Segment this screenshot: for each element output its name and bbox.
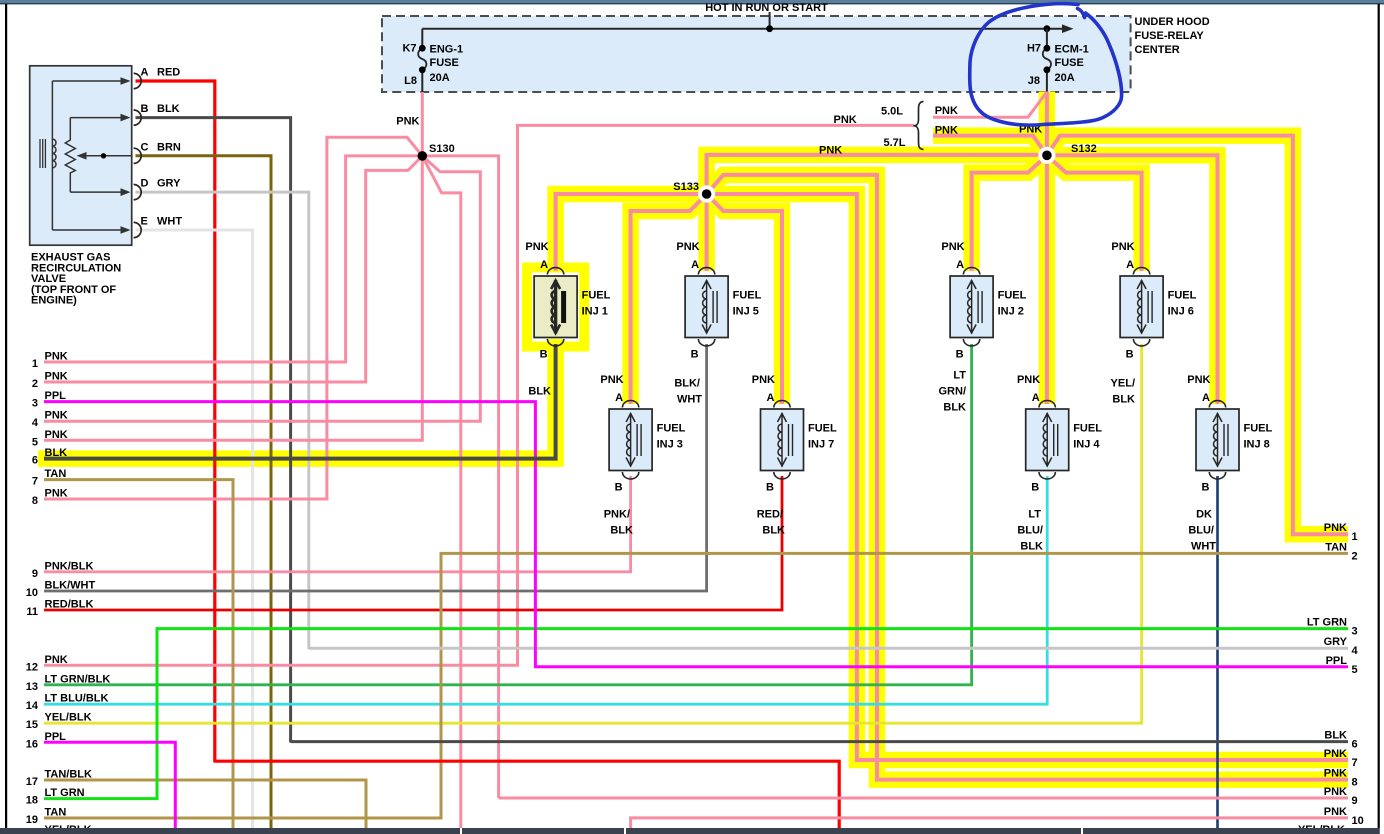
svg-text:INJ 8: INJ 8 [1244, 438, 1270, 450]
svg-text:INJ 3: INJ 3 [657, 438, 683, 450]
svg-text:LT GRN/BLK: LT GRN/BLK [45, 673, 111, 685]
splice S130 [418, 151, 428, 161]
svg-text:BLK: BLK [943, 402, 966, 414]
svg-text:ENG-1: ENG-1 [430, 44, 464, 56]
highlight band S133 to injector 5 pin A [698, 194, 715, 271]
highlight band S132 to injector 2 pin A [972, 155, 1047, 271]
svg-text:A: A [1202, 392, 1210, 404]
svg-text:B: B [956, 349, 964, 361]
svg-text:5.7L: 5.7L [884, 137, 906, 149]
annotation circle around ECM-1 fuse [970, 4, 1122, 125]
terminal J8 [1044, 66, 1051, 73]
EGR internal wire to pin E [52, 229, 121, 231]
svg-text:INJ 4: INJ 4 [1073, 438, 1100, 450]
svg-text:B: B [615, 482, 623, 494]
svg-text:7: 7 [1352, 757, 1358, 769]
svg-text:PNK: PNK [1324, 806, 1347, 818]
svg-text:8: 8 [32, 495, 38, 507]
wire PNK S133 to injector 5 pin A [705, 194, 709, 271]
svg-text:B: B [691, 349, 699, 361]
wire PNK S133 to injector 3 pin A [631, 194, 707, 404]
EGR wiper arrow to pin C [85, 155, 131, 157]
svg-text:A: A [540, 259, 548, 271]
highlight band S133 to injector 1 pin A [556, 194, 707, 271]
svg-text:5.0L: 5.0L [881, 106, 903, 118]
fuse ECM-1 20A [1046, 29, 1048, 49]
svg-text:GRY: GRY [157, 178, 181, 190]
wire WHT EGR pin E drop [136, 230, 253, 829]
wire PNK S132 to injector 6 pin A [1047, 155, 1142, 271]
svg-text:RED: RED [157, 67, 180, 79]
svg-text:E: E [141, 216, 148, 228]
wire PNK S130 to left pin 8 [44, 137, 422, 499]
svg-text:PNK: PNK [1324, 786, 1347, 798]
fuel injector FUEL INJ 7 [761, 409, 804, 471]
svg-text:FUEL: FUEL [1168, 290, 1197, 302]
wire GRY to right pin 4 [309, 647, 1348, 650]
svg-text:ECM-1: ECM-1 [1055, 44, 1089, 56]
highlight band ECM riser to S132 [1039, 92, 1056, 156]
svg-text:PNK: PNK [45, 488, 68, 500]
svg-text:BLK: BLK [45, 447, 68, 459]
svg-text:4: 4 [32, 417, 39, 429]
wire hot bus [422, 28, 1066, 30]
svg-text:INJ 5: INJ 5 [733, 305, 759, 317]
svg-text:TAN/BLK: TAN/BLK [45, 769, 93, 781]
svg-text:LT GRN: LT GRN [45, 787, 85, 799]
highlight band S133 riser / connector to S132 [707, 155, 1047, 194]
svg-text:9: 9 [32, 568, 38, 580]
EGR pin E (WHT) [134, 222, 142, 237]
svg-text:FUEL: FUEL [808, 423, 837, 435]
wire TAN left pin 19 to right pin 2 [44, 553, 1348, 818]
svg-text:BLU/: BLU/ [1188, 525, 1214, 537]
svg-text:PNK: PNK [935, 125, 958, 137]
svg-text:PPL: PPL [45, 390, 67, 402]
svg-text:BLU/: BLU/ [1017, 525, 1043, 537]
brace 5.0L/5.7L [914, 102, 924, 150]
wire LT GRN/BLK injector 2 pin B to left pin 13 [44, 344, 972, 685]
wire PNK S133 to right pin 7 [707, 194, 1348, 760]
svg-text:B: B [766, 482, 774, 494]
svg-text:S132: S132 [1071, 143, 1097, 155]
wire PNK S130 to left pin 4 [44, 156, 480, 421]
EGR internal wire to pin D [70, 191, 121, 193]
wire BLK/WHT injector 5 pin B to left pin 10 [44, 344, 707, 591]
svg-text:FUEL: FUEL [657, 423, 686, 435]
wire LT BLU/BLK injector 4 pin B to left pin 14 [44, 476, 1047, 704]
wire BLK to right pin 6 [291, 740, 1348, 743]
wire PNK to right pin 9 [499, 797, 1348, 800]
svg-text:PNK/: PNK/ [604, 509, 630, 521]
wire LT GRN left pin 18 to right pin 3 [44, 629, 1348, 799]
fuse ENG-1 20A [421, 29, 423, 49]
fuel injector FUEL INJ 1 [534, 276, 577, 338]
svg-text:YEL/BLK: YEL/BLK [45, 712, 92, 724]
wire BLK injector 1 pin B to left pin 6 [44, 344, 556, 459]
splice S132 [1038, 147, 1055, 164]
EGR internal wire to pin B [70, 117, 121, 119]
svg-text:A: A [141, 67, 149, 79]
EGR internal left rail [51, 81, 53, 230]
svg-text:BLK: BLK [528, 386, 551, 398]
fuel injector FUEL INJ 4 [1026, 409, 1069, 471]
svg-text:12: 12 [26, 661, 38, 673]
svg-text:5: 5 [1352, 664, 1358, 676]
svg-text:1: 1 [1352, 531, 1358, 543]
wire BRN EGR pin C drop [136, 156, 272, 829]
svg-text:8: 8 [1352, 777, 1358, 789]
wire PNK ECM riser to S132 [1045, 92, 1049, 156]
svg-text:2: 2 [1352, 550, 1358, 562]
terminal L8 [419, 66, 426, 73]
highlight band injector 1 BLK to left pin 6 [38, 339, 556, 459]
EGR pin C (BRN) [134, 148, 142, 163]
svg-text:WHT: WHT [1191, 541, 1216, 553]
svg-text:CENTER: CENTER [1135, 44, 1180, 56]
svg-text:6: 6 [1352, 739, 1358, 751]
svg-text:BLK: BLK [1112, 394, 1135, 406]
svg-text:PNK: PNK [45, 371, 68, 383]
wire PNK S130 to left pin 5 [44, 156, 422, 440]
svg-text:ENGINE): ENGINE) [31, 295, 77, 307]
svg-text:PNK: PNK [752, 374, 775, 386]
svg-text:BLK: BLK [762, 525, 785, 537]
svg-text:RED/BLK: RED/BLK [45, 599, 94, 611]
EGR pin D (GRY) [134, 185, 142, 200]
svg-text:6: 6 [32, 455, 38, 467]
svg-text:FUEL: FUEL [998, 290, 1027, 302]
svg-text:L8: L8 [404, 75, 417, 87]
fuse-relay center box (UNDER HOOD FUSE-RELAY CENTER) [382, 16, 1131, 92]
wire PNK 5.7L variant [933, 136, 1047, 156]
fuel injector FUEL INJ 3 [609, 409, 652, 471]
svg-text:PNK: PNK [396, 116, 419, 128]
EGR internal wire to pin A [52, 80, 121, 82]
svg-text:FUEL: FUEL [1244, 423, 1273, 435]
svg-text:GRN/: GRN/ [939, 386, 967, 398]
EGR internal middle rail [65, 118, 75, 193]
svg-text:D: D [141, 178, 149, 190]
highlight band S133 to right pin 7 [707, 194, 1348, 760]
svg-text:PNK: PNK [45, 654, 68, 666]
svg-text:FUEL: FUEL [582, 290, 611, 302]
highlight band S133 to injector 3 pin A [631, 194, 707, 404]
wire BLK EGR pin B drop [136, 118, 291, 743]
wire DK BLU/WHT injector 8 pin B [1216, 476, 1219, 829]
wire PNK S133 to injector 1 pin A [556, 194, 707, 271]
svg-text:BRN: BRN [157, 141, 181, 153]
wire PNK S130 to left pin 1 [44, 156, 422, 362]
wire TAN/BLK left pin 17 drop [44, 780, 366, 829]
svg-text:PPL: PPL [1326, 655, 1348, 667]
junction hot tick [766, 25, 773, 32]
svg-text:11: 11 [26, 606, 38, 618]
wire PNK from bottom to right pin 10 [631, 818, 1348, 829]
wire RED bottom run [215, 761, 839, 829]
svg-text:15: 15 [26, 719, 38, 731]
svg-text:7: 7 [32, 476, 38, 488]
svg-text:DK: DK [1196, 509, 1212, 521]
svg-text:A: A [1032, 392, 1040, 404]
terminal H7 [1044, 45, 1051, 52]
wire PNK S133 to right pin 8 [707, 175, 1348, 780]
terminal K7 [419, 45, 426, 52]
svg-text:1: 1 [32, 358, 38, 370]
svg-text:J8: J8 [1028, 75, 1040, 87]
svg-text:B: B [141, 103, 149, 115]
wire PNK S132 to injector 8 pin A [1047, 155, 1218, 404]
svg-text:16: 16 [26, 738, 38, 750]
svg-text:3: 3 [1352, 626, 1358, 638]
svg-text:FUEL: FUEL [733, 290, 762, 302]
svg-text:FUSE-RELAY: FUSE-RELAY [1135, 30, 1205, 42]
EGR solenoid coil [52, 139, 56, 168]
svg-text:B: B [540, 349, 548, 361]
svg-text:LT: LT [1028, 509, 1041, 521]
svg-text:H7: H7 [1027, 43, 1041, 55]
svg-text:INJ 7: INJ 7 [808, 438, 834, 450]
svg-text:TAN: TAN [1325, 541, 1347, 553]
svg-text:S133: S133 [673, 181, 699, 193]
wire PNK/BLK injector 3 pin B to left pin 9 [44, 476, 631, 572]
svg-text:PNK: PNK [1324, 748, 1347, 760]
svg-text:10: 10 [26, 587, 38, 599]
fuel injector FUEL INJ 8 [1196, 409, 1239, 471]
svg-text:B: B [1126, 349, 1134, 361]
svg-text:9: 9 [1352, 795, 1358, 807]
svg-text:TAN: TAN [45, 807, 67, 819]
svg-text:BLK: BLK [610, 525, 633, 537]
svg-text:20A: 20A [1055, 72, 1075, 84]
wire PNK brace to left pin 12 [44, 125, 914, 665]
svg-text:PNK: PNK [45, 410, 68, 422]
svg-text:PNK: PNK [1324, 522, 1347, 534]
svg-text:INJ 1: INJ 1 [582, 305, 608, 317]
svg-text:A: A [615, 392, 623, 404]
svg-text:FUSE: FUSE [1055, 57, 1084, 69]
wire hot feed tick [769, 12, 771, 29]
svg-text:FUSE: FUSE [430, 57, 459, 69]
svg-text:A: A [1126, 259, 1134, 271]
highlight band 5.7L PNK [933, 136, 1047, 156]
EGR coil core [40, 139, 45, 168]
fuel injector FUEL INJ 5 [685, 276, 728, 338]
svg-text:BLK/WHT: BLK/WHT [45, 580, 96, 592]
svg-text:WHT: WHT [677, 394, 702, 406]
svg-text:LT BLU/BLK: LT BLU/BLK [45, 693, 109, 705]
svg-text:18: 18 [26, 795, 38, 807]
wire PPL left pin 3 to right pin 5 [44, 402, 1348, 667]
wire PNK fuse ENG-1 to S130 [421, 92, 424, 156]
wire RED EGR pin A drop [136, 81, 215, 763]
svg-text:PNK: PNK [676, 241, 699, 253]
svg-text:INJ 6: INJ 6 [1168, 305, 1194, 317]
svg-text:BLK: BLK [157, 103, 180, 115]
highlight band S132 to injector 8 pin A [1047, 155, 1218, 404]
svg-text:K7: K7 [402, 43, 416, 55]
svg-text:GRY: GRY [1324, 636, 1348, 648]
wire PNK S133 riser to S132 [707, 155, 1047, 194]
svg-text:HOT IN RUN OR START: HOT IN RUN OR START [705, 2, 828, 14]
svg-text:FUEL: FUEL [1073, 423, 1102, 435]
svg-text:C: C [141, 141, 149, 153]
wire PNK S132 to right pin 1 [1047, 136, 1348, 535]
highlight band S132 to injector 4 pin A [1039, 155, 1056, 404]
wire TAN left pin 7 drop [44, 480, 233, 829]
svg-text:BLK/: BLK/ [674, 378, 700, 390]
wire GRY EGR pin D drop [136, 192, 309, 649]
svg-text:B: B [1031, 482, 1039, 494]
svg-text:20A: 20A [430, 72, 450, 84]
svg-text:PNK: PNK [935, 105, 958, 117]
svg-text:YEL/: YEL/ [1111, 378, 1135, 390]
junction ECM feed [1044, 25, 1051, 32]
highlight band S133 to right pin 8 [707, 175, 1348, 780]
svg-text:A: A [767, 392, 775, 404]
svg-text:PNK: PNK [45, 351, 68, 363]
wire YEL/BLK injector 6 pin B to left pin 15 [44, 344, 1142, 723]
svg-text:UNDER HOOD: UNDER HOOD [1135, 16, 1210, 28]
svg-text:RED/: RED/ [757, 509, 783, 521]
svg-text:PNK: PNK [1187, 374, 1210, 386]
svg-text:PNK: PNK [1017, 374, 1040, 386]
svg-text:4: 4 [1352, 645, 1359, 657]
fuel injector FUEL INJ 6 [1120, 276, 1163, 338]
svg-text:13: 13 [26, 681, 38, 693]
svg-text:10: 10 [1352, 815, 1364, 827]
svg-text:LT: LT [953, 370, 966, 382]
wire PNK S133 to injector 7 pin A [707, 194, 782, 404]
wire PNK S130 to left pin 2 [44, 156, 422, 382]
svg-text:PNK/BLK: PNK/BLK [45, 560, 94, 572]
svg-text:PNK: PNK [819, 144, 842, 156]
svg-text:3: 3 [32, 398, 38, 410]
svg-text:PNK: PNK [1324, 768, 1347, 780]
wire RED/BLK injector 7 pin B to left pin 11 [44, 476, 782, 610]
splice S133 [698, 185, 715, 202]
svg-text:PNK: PNK [941, 241, 964, 253]
wire PNK S130 drop to bottom [422, 156, 461, 829]
svg-text:B: B [1202, 482, 1210, 494]
svg-text:19: 19 [26, 814, 38, 826]
svg-text:17: 17 [26, 776, 38, 788]
svg-text:14: 14 [26, 700, 39, 712]
svg-text:S130: S130 [429, 143, 455, 155]
highlight band S133 to injector 7 pin A [707, 194, 782, 404]
svg-text:PNK: PNK [1111, 241, 1134, 253]
wire PPL left pin 16 drop [44, 742, 175, 829]
svg-text:PNK: PNK [600, 374, 623, 386]
wire PNK S132 to injector 2 pin A [972, 155, 1047, 271]
svg-text:BLK: BLK [1020, 541, 1043, 553]
svg-text:TAN: TAN [45, 468, 67, 480]
highlight band S132 to injector 6 pin A [1047, 155, 1142, 271]
EGR pin B (BLK) [134, 110, 142, 125]
svg-text:A: A [956, 259, 964, 271]
fuel injector FUEL INJ 2 [950, 276, 993, 338]
EGR valve box [30, 66, 132, 245]
EGR pin A (RED) [134, 73, 142, 88]
svg-text:2: 2 [32, 378, 38, 390]
wire PNK 5.0L variant [933, 92, 1047, 117]
wire PNK S130 to right pin 9 (riser) [422, 156, 498, 798]
svg-text:PNK: PNK [834, 114, 857, 126]
svg-text:INJ 2: INJ 2 [998, 305, 1024, 317]
svg-text:BLK: BLK [1324, 730, 1347, 742]
svg-text:PNK: PNK [525, 241, 548, 253]
svg-text:5: 5 [32, 436, 38, 448]
highlight band S132 to right pin 1 [1047, 136, 1348, 535]
svg-text:A: A [691, 259, 699, 271]
wire PNK S132 to injector 4 pin A [1045, 155, 1049, 404]
svg-text:WHT: WHT [157, 216, 182, 228]
svg-text:PNK: PNK [45, 429, 68, 441]
svg-text:PPL: PPL [45, 731, 67, 743]
highlight ring around injector 1 [527, 268, 584, 347]
svg-text:LT GRN: LT GRN [1307, 617, 1347, 629]
